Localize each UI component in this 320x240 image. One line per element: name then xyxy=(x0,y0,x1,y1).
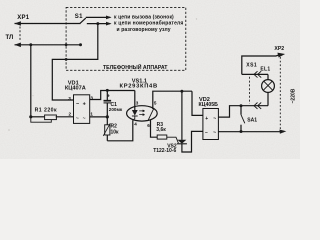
svg-text:ТЕЛЕФОННЫЙ АППАРАТ: ТЕЛЕФОННЫЙ АППАРАТ xyxy=(103,63,168,71)
svg-text:3,6к: 3,6к xyxy=(156,127,166,133)
resistor R1 220k xyxy=(45,115,57,120)
svg-text:~: ~ xyxy=(76,116,79,121)
svg-text:+: + xyxy=(83,102,86,108)
wire bell circuit xyxy=(86,16,111,18)
svg-text:2: 2 xyxy=(69,111,72,116)
wire VS2 anode xyxy=(181,91,183,140)
wire R3 to VS2 gate xyxy=(167,137,179,143)
wire rail to VD2 left top xyxy=(192,91,203,115)
wire bridge pin1 to node xyxy=(90,116,108,118)
LED inside opto xyxy=(134,107,136,110)
wire R1 column xyxy=(30,45,32,117)
svg-text:3: 3 xyxy=(136,101,139,106)
telephone apparatus dashed box xyxy=(66,7,186,70)
node terminal end of bottom line xyxy=(79,43,82,46)
node VS2 anode on rail xyxy=(180,90,183,93)
svg-text:~: ~ xyxy=(83,116,86,121)
svg-text:6: 6 xyxy=(147,123,150,128)
svg-text:3: 3 xyxy=(90,96,93,101)
switch S1 blade xyxy=(80,18,86,24)
wire bottom mains xyxy=(218,131,283,133)
svg-text:4: 4 xyxy=(134,121,137,126)
wire tap vertical down to pin3 of VD1 xyxy=(52,24,98,100)
wire hook below R1 xyxy=(31,117,52,122)
socket XS1 dashed link xyxy=(249,77,251,104)
svg-text:+: + xyxy=(107,94,110,100)
opto relay VS1.1 ellipse xyxy=(127,106,158,121)
svg-text:−: − xyxy=(205,130,208,136)
svg-text:КЦ407А: КЦ407А xyxy=(65,85,86,91)
svg-text:5: 5 xyxy=(154,101,157,106)
svg-text:ХР2: ХР2 xyxy=(274,46,284,52)
switch SA1 xyxy=(240,106,242,115)
connector XS1 contacts chevrons top xyxy=(254,71,261,77)
svg-text:~: ~ xyxy=(213,130,216,136)
opto pin5 wire to right rail xyxy=(153,91,192,108)
node SA1 bottom xyxy=(240,130,243,133)
svg-text:Т122-10-6: Т122-10-6 xyxy=(153,148,176,154)
svg-text:1: 1 xyxy=(90,111,93,116)
wire to R1 xyxy=(31,116,45,118)
wire opto pin6 to R3 xyxy=(151,120,158,138)
node junction to R1 column xyxy=(29,43,32,46)
svg-text:3: 3 xyxy=(68,96,71,101)
wire top mains to XP2 xyxy=(242,56,276,74)
node R1 left junction xyxy=(29,115,32,118)
connector XP1 arrow bottom xyxy=(14,43,21,48)
node crossing at box edge tap wire xyxy=(65,58,68,61)
lamp EL1 xyxy=(262,80,275,93)
svg-text:XS1: XS1 xyxy=(246,63,257,69)
node C1/R2/pin1 xyxy=(106,115,109,118)
node crossing at box edge bottom wire xyxy=(65,43,68,46)
connector XP1 arrow top xyxy=(14,21,21,26)
wire bottom telephone line xyxy=(15,44,81,46)
svg-text:КЦ405Б: КЦ405Б xyxy=(199,102,219,108)
diode bridge VD2 xyxy=(203,109,219,140)
svg-text:ХР1: ХР1 xyxy=(17,15,30,21)
wire VD2 right top to lamp bottom xyxy=(218,106,268,117)
svg-text:R1 220к: R1 220к xyxy=(35,108,57,114)
svg-text:КР293КП4В: КР293КП4В xyxy=(120,84,158,90)
svg-text:S1: S1 xyxy=(75,14,83,20)
opto output switch blade xyxy=(152,107,154,110)
svg-text:10к: 10к xyxy=(111,129,120,135)
connector XS1 contacts chevrons bottom xyxy=(254,103,261,109)
node tap on dialer wire xyxy=(96,22,99,25)
svg-text:к цепи вызова (звонок): к цепи вызова (звонок) xyxy=(114,14,174,20)
svg-text:200мк: 200мк xyxy=(109,107,123,112)
LED arrows xyxy=(139,110,144,112)
resistor R2 10k trimmer xyxy=(106,117,108,125)
wire bridge pin3 right to LED rail xyxy=(90,91,135,100)
svg-text:SA1: SA1 xyxy=(247,117,257,123)
wire lamp top lead xyxy=(242,73,268,75)
svg-text:~220В: ~220В xyxy=(290,88,296,103)
svg-text:ТЛ: ТЛ xyxy=(6,35,14,41)
wire lamp bottom lead xyxy=(267,92,269,105)
capacitor C1 200u xyxy=(106,90,108,100)
opto pin3 wire xyxy=(134,91,136,107)
wire dashed pair link TL xyxy=(19,27,21,42)
wire dialer circuit xyxy=(87,23,111,25)
mains boundary dashed xyxy=(279,57,281,131)
svg-text:и разговорному узлу: и разговорному узлу xyxy=(117,27,171,33)
svg-text:EL1: EL1 xyxy=(260,67,270,73)
svg-text:−: − xyxy=(76,101,79,107)
wire LED bottom rail to opto pin4 xyxy=(107,120,133,141)
svg-text:+: + xyxy=(205,116,208,122)
svg-text:~: ~ xyxy=(213,116,216,122)
wire VS2 cathode to VD2 left bottom xyxy=(182,131,203,152)
diode bridge VD1 xyxy=(74,95,90,124)
wire top telephone line xyxy=(15,23,81,25)
thyristor VS2 xyxy=(177,140,186,144)
resistor R3 3.6k xyxy=(157,135,167,139)
wire R1 to bridge pin2 xyxy=(56,116,74,118)
svg-text:к цепи номеронабирателя: к цепи номеронабирателя xyxy=(114,20,184,27)
node SA1 top xyxy=(240,104,243,107)
node C1 top xyxy=(106,89,109,92)
scan speck xyxy=(8,129,10,131)
